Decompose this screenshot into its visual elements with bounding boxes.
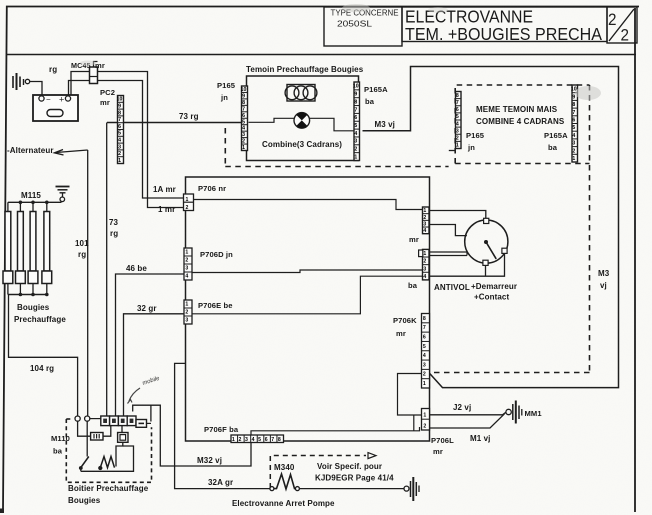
combine instrument box (3 cadrans): [247, 76, 359, 161]
scan smudge title: [342, 4, 370, 12]
wire glow plug top bus: [8, 201, 62, 203]
wire antivol feed top: [430, 211, 486, 219]
connector P165A strip: [353, 82, 360, 161]
wire M340 to ground: [299, 488, 404, 490]
connector stack antivol bottom: [419, 249, 429, 280]
wire glow plug bottom bus: [8, 294, 47, 296]
ground MM1: [506, 401, 522, 424]
wire P706F to P706L: [251, 427, 420, 435]
resistor zigzag boitier: [99, 457, 115, 470]
wire 104 rg: [9, 295, 78, 417]
connector P706: [184, 194, 194, 211]
wire P165 to lamp: [249, 118, 295, 122]
wire antivol double feed: [430, 252, 468, 256]
relay contact box boitier: [116, 426, 128, 467]
wire 32A branch from box edge: [175, 363, 270, 488]
node junctions bottom bus: [19, 293, 49, 297]
connector stack antivol top: [423, 207, 430, 234]
connector row boitier: [101, 416, 151, 427]
wire 46 be: [116, 274, 185, 416]
wire 73 rg vertical drop to boitier: [106, 123, 108, 417]
paper grain: [0, 0, 1, 1]
wire ground to battery minus: [30, 82, 42, 97]
connector P706L J2: [422, 409, 430, 431]
dashed variant outline combine: [225, 128, 448, 167]
node junctions top bus: [19, 201, 49, 205]
wire alternateur arrow 101 rg: [55, 150, 88, 417]
ignition switch ANTIVOL: [465, 218, 508, 265]
dashed box MEME TEMOIN: [455, 85, 589, 164]
ground G1 battery: [13, 73, 30, 90]
wire 73 rg horizontal: [107, 122, 241, 124]
TITLE-BLOCK: [324, 7, 637, 46]
connector P706K strip: [422, 314, 430, 389]
node M110 terminal 2: [85, 416, 90, 421]
glow plugs M115: [3, 202, 52, 294]
handwritten note: [128, 376, 162, 404]
scan smudge mc45: [80, 61, 96, 66]
wire antivol feed second: [430, 225, 467, 236]
scan mark bottom left: [0, 509, 4, 514]
wire link J2 row to P706F wire: [413, 415, 415, 431]
wire lamp to P165A: [310, 118, 355, 131]
wire J2 vj: [430, 412, 507, 415]
wire terminal2 to connector row: [90, 418, 101, 420]
switch boitier: [79, 421, 88, 471]
wire P706K to J2 link: [398, 374, 422, 416]
battery: [33, 95, 78, 122]
wire battery plus to relay feed 1: [71, 72, 184, 208]
wire rg battery plus to relay feed 1A: [69, 81, 185, 199]
wire P706E inside: [192, 276, 422, 314]
wire M3 vj loop: [363, 67, 619, 388]
connector P165A variant strip: [571, 85, 578, 162]
scan smudge: [575, 86, 601, 100]
wire M32 vj: [133, 405, 251, 466]
resistor boitier: [78, 421, 111, 440]
gauge cluster icon: [285, 85, 317, 102]
warning lamp symbol: [294, 113, 310, 129]
relay MC45: [71, 61, 105, 84]
connector P165 variant strip: [456, 92, 462, 149]
wire M1 vj: [430, 414, 505, 428]
wire 32 gr: [124, 314, 185, 416]
boitier dashed enclosure: [66, 419, 151, 482]
connector P706D: [184, 248, 192, 280]
wire stub to variant P165: [449, 150, 455, 152]
dashed wire M3 variant horizontal: [430, 372, 590, 374]
electrovanne M340 dashed box with arrow: [270, 456, 366, 489]
electrovanne M340 coil: [270, 474, 300, 491]
wire M32 link boitier: [150, 405, 152, 421]
ground electrovanne: [404, 477, 419, 501]
connector P165 strip: [241, 86, 248, 151]
dashed wire M3 variant vertical: [589, 85, 591, 373]
wire antivol return loop: [430, 253, 505, 276]
wire P706D inside: [192, 270, 422, 273]
wire boitier bottom rail: [81, 446, 134, 471]
central harness box: [186, 177, 430, 441]
node M110 terminal 1: [75, 416, 80, 421]
wire P706 inside to antivol connector: [194, 200, 423, 210]
connector P706E: [184, 300, 192, 324]
connector P706F strip: [231, 435, 284, 443]
connector PC2 strip: [117, 96, 124, 164]
ground M115: [56, 187, 70, 202]
